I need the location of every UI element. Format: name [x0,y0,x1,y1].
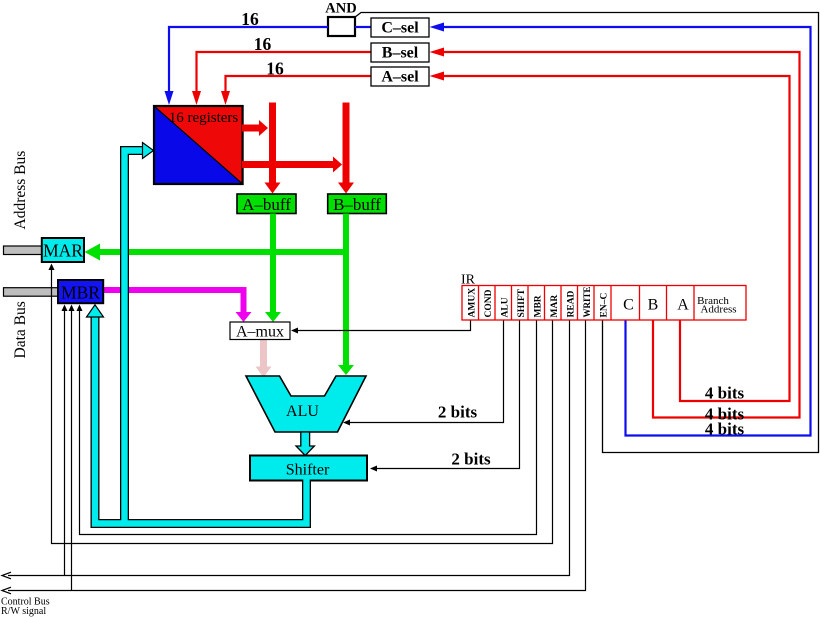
ALU [246,376,366,432]
wire MBR field control [80,310,537,535]
B-buff latch [328,194,387,214]
B-sel box [371,43,429,62]
cyan arrowhead into registers left [143,143,154,159]
svg-text:A–sel: A–sel [381,69,419,86]
svg-text:C–sel: C–sel [381,20,419,37]
svg-text:B–sel: B–sel [382,45,419,62]
arrowhead up into MBR [77,305,83,312]
arrowhead up into MBR [69,305,75,312]
A-mux box [230,322,290,340]
IR register box [462,286,746,321]
wire AND to registers (blue) [169,27,328,93]
registers output stub to A bus (red arrow) [242,125,259,132]
svg-text:2 bits: 2 bits [451,450,491,469]
svg-text:COND: COND [484,289,494,317]
wire C-sel loop from IR C field (blue, 4 bits) [444,27,811,436]
wire READ branch to MBR [64,310,66,576]
wire A-sel loop from IR A field (red, 4 bits) [444,76,790,401]
svg-text:C: C [623,297,634,314]
B bus branch to MAR (green) [100,249,350,255]
svg-text:Shifter: Shifter [286,462,330,479]
MBR register [58,280,103,303]
svg-text:B: B [648,297,659,314]
arrowhead red into registers top [192,91,201,105]
svg-text:AND: AND [325,1,356,17]
MBR to A-mux (magenta) [103,290,244,313]
wire WRITE branch to MBR [71,310,73,591]
wire EN-C to AND gate (black loop right side) [355,13,819,453]
svg-text:Address: Address [700,304,736,316]
C-sel box [371,18,429,37]
wire A-sel to registers (red) [226,76,372,93]
registers output to B bus (red arrow) [242,161,333,168]
wire B-sel to registers (red) [197,52,372,93]
svg-text:READ: READ [567,290,577,317]
svg-text:4 bits: 4 bits [705,420,745,439]
Shifter box [250,456,367,481]
svg-text:MBR: MBR [61,283,100,303]
svg-text:16 registers: 16 registers [169,110,239,126]
IR field labels [468,286,610,317]
AND gate U1 [328,17,355,36]
A bus vertical (red) [269,103,276,184]
cyan arrowhead into MBR bottom [87,305,104,317]
svg-text:16: 16 [241,9,259,29]
wire AMUX field to A-mux [297,320,471,331]
A-sel box [371,67,429,86]
arrowhead left (R/W signal) [2,587,11,594]
svg-text:A–buff: A–buff [242,195,291,214]
data bus gray stub [4,288,59,297]
arrowhead red into B-sel [430,48,445,57]
arrowhead red into A-sel [430,72,445,81]
B bus to ALU (green) [343,214,349,366]
arrowhead green into A-mux [265,312,281,322]
arrowhead red into registers top [221,91,230,105]
arrowhead green into MAR [85,244,101,261]
Shifter output cyan bus (black outline) [95,151,307,524]
arrowhead up into MAR [49,264,55,271]
wire READ field to control bus [8,320,570,576]
arrowhead up into MBR [62,305,68,312]
svg-text:Data Bus: Data Bus [12,301,29,358]
arrowhead magenta into A-mux [236,312,252,322]
ALU to Shifter cyan arrow [296,432,314,456]
A bus to A-mux (green) [270,214,276,314]
arrowhead blue into registers top [165,91,174,105]
svg-text:R/W signal: R/W signal [1,606,46,617]
wire B-sel loop from IR B field (red, 4 bits) [444,52,800,418]
svg-text:MAR: MAR [550,295,560,318]
svg-text:AMUX: AMUX [468,288,478,318]
svg-text:4 bits: 4 bits [705,384,745,403]
B bus vertical (red) [343,103,350,184]
svg-text:WRITE: WRITE [582,286,592,317]
svg-text:16: 16 [266,59,284,79]
svg-text:SHIFT: SHIFT [517,288,527,317]
svg-text:MBR: MBR [534,295,544,317]
A-mux to ALU (pink) [260,340,267,368]
svg-text:ALU: ALU [286,403,319,420]
svg-text:2 bits: 2 bits [438,403,478,422]
A-buff latch [237,194,296,214]
wire MAR field control [52,269,553,544]
svg-text:A: A [677,297,689,314]
arrowhead into ALU right edge [343,420,350,426]
svg-text:EN–C: EN–C [600,293,610,318]
16 registers box [154,106,243,184]
arrowhead blue into C-sel [430,23,445,32]
arrowhead red into B-buff [338,183,354,194]
arrowhead into A-mux right [291,328,298,334]
arrowhead red into A-buff [265,183,281,194]
svg-text:16: 16 [254,34,272,54]
arrowhead pink into ALU [256,367,272,378]
arrowhead green into ALU [338,365,354,375]
svg-text:MAR: MAR [43,241,83,261]
svg-text:Address Bus: Address Bus [12,151,29,230]
wire ALU field to ALU [349,320,504,423]
wire WRITE field to R/W signal [8,320,586,591]
MAR register [42,238,84,262]
wire SHIFT field to Shifter [376,320,520,469]
address bus gray stub [4,246,43,255]
svg-text:A–mux: A–mux [236,324,284,341]
wire C-sel to AND (blue) [355,26,371,28]
arrowhead left (control bus) [2,572,11,579]
arrowhead into Shifter right [370,466,377,472]
svg-text:B–buff: B–buff [333,195,381,214]
svg-text:ALU: ALU [501,297,511,317]
